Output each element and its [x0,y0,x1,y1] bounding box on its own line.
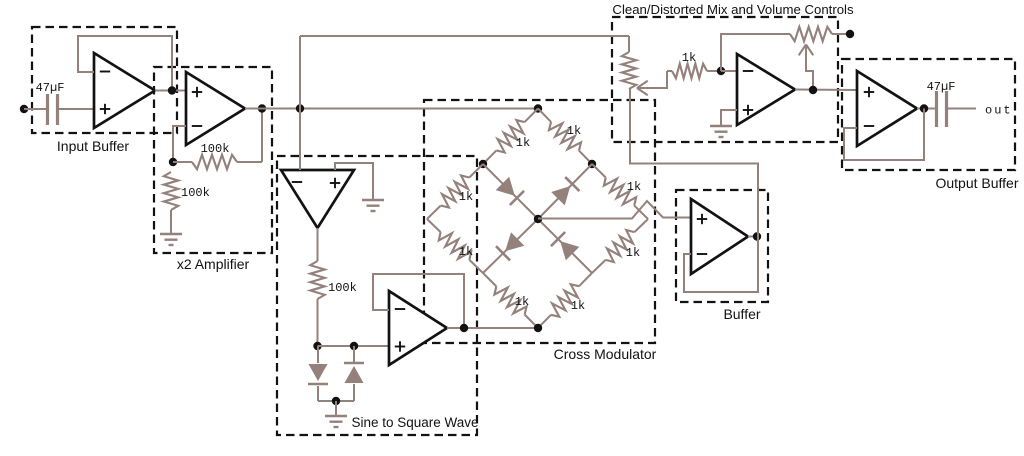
op-amp U4 sine to square [389,291,447,365]
dashed box: Output Buffer stage [842,59,1015,170]
dashed box: Sine to Square Wave stage [277,156,477,435]
capacitor 47uF output [935,91,938,127]
wire U3 + input to ground [335,163,373,199]
svg-text:Input Buffer: Input Buffer [57,138,129,154]
diode ring upper-right (points to node) [551,186,570,205]
wire U3 output down [317,228,319,261]
svg-text:1k: 1k [459,245,473,259]
node cross modulator upper-left [479,160,487,168]
wire U3 - input from main wire [299,109,301,171]
dashed box: x2 Amplifier stage [154,67,272,253]
node: input terminal [20,105,28,113]
wire U2 - input stub [173,126,186,162]
node U1 output [168,86,176,94]
wire clean feed into mix pot top [628,36,630,52]
wire diode ring lower-right arm [538,219,592,273]
wire capacitor to op-amp U1 + input [58,108,94,110]
diode clamp right (cathode up) [353,384,355,401]
wire U4 output to cross modulator [447,327,538,329]
wire diode ring lower-left arm [483,219,538,273]
ground U3 + input [362,199,384,201]
potentiometer volume (horizontal) [790,27,832,41]
dashed box: Buffer stage [676,190,768,302]
wire U7 output [917,108,936,110]
svg-text:1k: 1k [516,136,530,150]
svg-text:1k: 1k [567,124,581,138]
resistor 1k arm left-upper [469,164,483,177]
svg-text:Sine to Square Wave: Sine to Square Wave [351,415,478,430]
mix pot wiper arrow [637,88,648,95]
svg-text:1k: 1k [627,180,641,194]
dashed box: Input Buffer stage [32,27,177,133]
volume pot wiper arrow [799,45,806,56]
wire U1 output [155,90,186,92]
ground sine stage [325,415,347,417]
node U7 output [920,104,928,112]
svg-text:47µF: 47µF [36,81,65,95]
wire center output with hop over right corner [538,201,691,219]
resistor 1k arm top-left [525,109,538,123]
wire node to U4 + input [318,345,390,347]
svg-text:100k: 100k [181,186,210,200]
wire U6 output to output buffer [795,89,857,92]
svg-text:x2 Amplifier: x2 Amplifier [177,256,250,272]
node main wire branch [296,104,304,112]
wire U1 feedback output to - input [78,36,172,90]
wire U6 + input to ground [721,110,737,125]
op-amp U1 input buffer [94,53,155,128]
svg-text:1k: 1k [682,51,696,65]
node U5 output [753,232,761,240]
wire U5 feedback loop [684,237,758,293]
svg-text:1k: 1k [459,190,473,204]
wire resistor to node [317,299,319,346]
diode ring lower-left (points to node) [505,232,524,251]
ground mix op-amp [710,125,732,127]
svg-text:1k: 1k [515,295,529,309]
diode clamp left (cathode down) [317,346,319,363]
node U6 output [809,86,817,94]
op-amp U7 output buffer [857,71,917,146]
wire input terminal to capacitor [24,108,47,110]
wire U2 output to cross modulator top [245,108,538,110]
svg-text:Buffer: Buffer [723,306,760,322]
svg-text:100k: 100k [201,142,230,156]
node diode ground junction [332,397,340,405]
svg-text:out: out [985,104,1013,118]
wire U4 feedback [373,274,464,328]
diode ring upper-left (points to center) [496,177,515,196]
svg-text:47µF: 47µF [927,80,956,94]
resistor 1k arm top-right [538,109,551,122]
svg-text:Output Buffer: Output Buffer [935,175,1018,191]
svg-text:Clean/Distorted Mix and Volume: Clean/Distorted Mix and Volume Controls [612,2,854,17]
wire diode ring upper-left arm [483,164,538,219]
resistor 100k to ground U2 [170,171,172,173]
node cross modulator bottom corner [534,324,542,332]
node U4 output [460,324,468,332]
diode ring lower-right (points to center) [560,241,579,260]
node diode clamp right [350,342,358,350]
wire U5 output [748,236,758,238]
wire diode bottoms [318,400,354,402]
capacitor 47uF input [46,94,49,125]
node U2 feedback junction [169,158,177,166]
resistor 100k feedback U2 [173,161,192,163]
wire U7 feedback loop [844,109,924,161]
svg-text:Cross Modulator: Cross Modulator [554,346,657,362]
dashed box: Clean/Distorted Mix and Volume Controls stage [612,17,838,142]
resistor 100k sine to square [310,261,324,299]
resistor 1k arm bottom-left [483,273,496,286]
wire branch up to clean feed [299,36,301,109]
svg-text:100k: 100k [328,281,357,295]
node mix op-amp - input [717,67,725,75]
node volume pot right terminal [846,30,854,38]
op-amp U5 buffer [691,199,748,274]
op-amp U2 x2 amplifier [186,72,245,145]
node cross modulator center [534,215,542,223]
resistor 1k arm left-lower [427,219,441,232]
node diode clamp left [313,342,321,350]
op-amp U6 mix amplifier [737,54,795,125]
ground x2 amplifier [160,233,182,235]
wire node to U6 - input [721,70,737,72]
wire diode ring upper-right arm [538,164,592,219]
svg-text:1k: 1k [571,299,585,313]
wire capacitor to out terminal [947,108,976,110]
wire to ground sine stage [335,401,337,415]
resistor 1k arm right-lower [634,219,648,232]
wire U2 feedback up to output [261,109,263,163]
dashed box: Cross Modulator stage [424,100,655,343]
wire clean feed to mix pot [300,35,629,37]
resistor 1k arm right-upper [592,164,606,177]
wire mix feedback up to volume pot [721,34,790,71]
wire buffer output up to mix pot [630,89,758,237]
resistor 1k arm bottom-right [579,273,592,286]
resistor 1k mix to op-amp [672,64,707,78]
node U2 output [258,104,266,112]
node cross modulator top corner [534,104,542,112]
svg-text:1k: 1k [626,246,640,260]
op-amp U3 comparator pointing down [281,170,354,228]
node cross modulator upper-right [588,160,596,168]
potentiometer mix (vertical) [622,52,636,89]
